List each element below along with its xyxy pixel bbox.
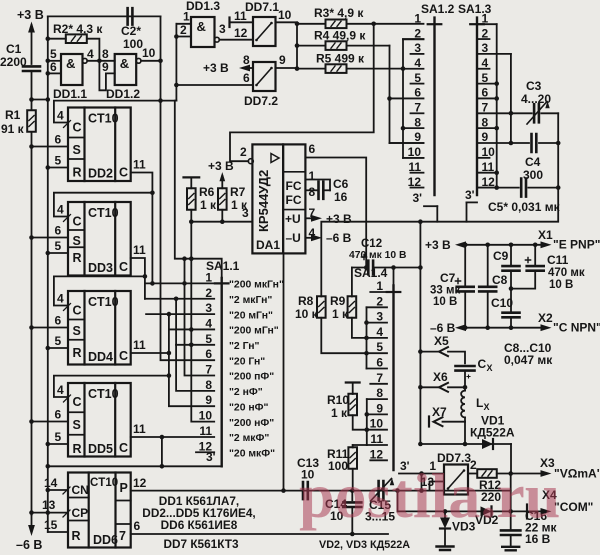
svg-text:P: P (120, 481, 128, 495)
junction out/C2 rail (158, 59, 163, 64)
junction c6 (387, 96, 392, 101)
ground C16 (502, 547, 519, 551)
junction R2 left (46, 36, 51, 41)
svg-text:C: C (73, 121, 82, 135)
svg-text:R6: R6 (199, 185, 215, 199)
svg-text:DD4: DD4 (88, 350, 113, 364)
counter DD3 (68, 202, 131, 276)
svg-text:8: 8 (102, 47, 109, 61)
svg-text:S: S (73, 143, 81, 157)
counter DD5 (68, 383, 131, 457)
wire R11 top to c11 (353, 444, 367, 446)
wire C5 left (497, 187, 519, 189)
svg-text:10 В: 10 В (549, 279, 573, 291)
wire SA1.3 group rail x=496.7 (496, 24, 498, 187)
wire DD5 out to SA1.1-11 (131, 436, 215, 438)
wire drop x=421.5 (421, 474, 423, 491)
junction R5/pin9 (295, 66, 300, 71)
svg-text:КР544УД2: КР544УД2 (256, 170, 271, 232)
wire DD3 out down (rail x=144.9) (131, 258, 145, 299)
wire DD6 P out (to C13 line) (131, 490, 511, 492)
junction C9 (509, 243, 514, 248)
svg-text:R: R (73, 251, 82, 265)
wire R10 bottom to c10 (353, 415, 367, 429)
contact SA1.2-6 (390, 97, 424, 99)
contact SA1.2-12 (411, 187, 424, 189)
junction CP line (46, 510, 51, 515)
svg-text:6: 6 (55, 314, 62, 328)
svg-text:DD1.3: DD1.3 (186, 0, 220, 13)
svg-text:10: 10 (199, 409, 213, 423)
svg-text:–U: –U (286, 231, 301, 245)
switch SA1.2 wiper bar (433, 18, 435, 195)
analog switch DD7.2 (253, 62, 276, 91)
wire DD7.3 pin13 (430, 482, 445, 491)
junction pin2 (174, 34, 179, 39)
wire pin9 tie (99, 61, 114, 91)
junction C3 line (509, 111, 514, 116)
wire C1 to R1 (31, 71, 33, 110)
junction c8 (401, 126, 406, 131)
wire hook to DD3.C (54, 193, 152, 217)
svg-text:"2 Гн": "2 Гн" (229, 341, 259, 352)
wire drop x=184.5 (c1 to c7) (185, 259, 215, 376)
svg-text:10: 10 (408, 145, 422, 159)
svg-text:S: S (73, 418, 81, 432)
svg-text:DD6: DD6 (93, 533, 118, 547)
svg-text:10: 10 (370, 417, 384, 431)
junction C14 bottom (350, 532, 355, 537)
svg-text:–6 В: –6 В (16, 538, 42, 552)
svg-text:10: 10 (278, 8, 292, 22)
wire clock line to DD2.C (54, 101, 176, 123)
svg-text:7: 7 (205, 363, 212, 377)
contact SA1.4-1 (370, 291, 387, 293)
capacitor Cx (456, 366, 475, 371)
wire drop from C13 line x=397.5 (397, 491, 399, 512)
svg-text:C: C (73, 304, 82, 318)
junction 3' drop (160, 464, 165, 469)
wire X3 rail down to C16 (510, 474, 512, 531)
svg-text:VD2, VD3 КД522А: VD2, VD3 КД522А (319, 539, 410, 551)
svg-text:"2 мкФ": "2 мкФ" (229, 433, 269, 444)
wire S DD5 (32, 421, 69, 423)
svg-text:CT10: CT10 (90, 477, 118, 489)
svg-text:X1: X1 (538, 228, 553, 242)
wire DD1.3 input rail (175, 24, 177, 101)
wire hook to DD4.C (54, 276, 145, 305)
wire C12 line left (352, 267, 368, 269)
wire right bus x=558.2 down to common line (321, 113, 558, 296)
clock edge mark DD3 (64, 215, 71, 222)
svg-text:9: 9 (102, 60, 109, 74)
analog switch DD7.1 (253, 17, 276, 46)
svg-text:&: & (120, 56, 129, 71)
junction R3 (295, 22, 300, 27)
svg-text:11: 11 (133, 243, 146, 257)
ground VD3 (437, 547, 454, 551)
wire gen rail x=160.5 to SA1.1-6 (161, 101, 215, 361)
junction C7 bottom (463, 325, 468, 330)
wire DD1.2 out (141, 60, 161, 62)
contact SA1.3-11 (479, 172, 497, 174)
wire rail x=168.9 (c3 to c9) (169, 314, 214, 406)
capacitor C2 (128, 8, 133, 24)
contact SA1.4-7 (370, 383, 387, 385)
wire R9 bottom to c4 (352, 318, 367, 338)
contact SA1.2-7 (411, 112, 424, 114)
wire R DD3 (48, 252, 68, 254)
svg-text:9: 9 (279, 53, 286, 67)
counter DD6 (68, 473, 131, 548)
contact SA1.2-9 (390, 142, 424, 144)
contact SA1.3-9 line (479, 142, 497, 144)
wire Cx to X6 node (464, 371, 466, 388)
resistor R12 (477, 469, 497, 478)
svg-text:"С NPN": "С NPN" (553, 321, 600, 335)
wire pin6 to rail (176, 84, 253, 86)
contact SA1.1-5 (176, 344, 214, 346)
contact SA1.2-8 (403, 127, 424, 129)
junction C5/group rail (494, 185, 499, 190)
svg-text:6: 6 (243, 71, 250, 85)
svg-text:11: 11 (370, 432, 383, 446)
junction DD1.1 output (97, 59, 102, 64)
contact SA1.3-4 (479, 68, 490, 70)
wire R DD6 (48, 531, 68, 533)
contact SA1.1-4 (170, 328, 214, 330)
junction drop c1/c7 (182, 256, 187, 261)
wire CP (32, 512, 69, 514)
contact SA1.2-3' (424, 205, 437, 207)
contact SA1.4-3 (367, 322, 388, 324)
logic gate DD1.1 (61, 54, 83, 85)
wire DA1 pin3 / R6 R7 node (191, 221, 252, 223)
junction c5 (364, 351, 369, 356)
wire 3' drop x=161.9 (161, 437, 163, 466)
svg-text:R10: R10 (327, 393, 349, 407)
wire wiper feed x=174.8 (175, 101, 222, 278)
wire C5 right (528, 187, 558, 189)
contact SA1.2-2 (403, 38, 424, 40)
svg-text:11: 11 (199, 424, 212, 438)
svg-text:13: 13 (42, 498, 56, 512)
svg-text:11: 11 (133, 158, 146, 172)
svg-text:+U: +U (285, 212, 301, 226)
wire DD4 out into rail x=168.9 (131, 352, 169, 354)
svg-text:R3* 4,9 к: R3* 4,9 к (314, 6, 364, 20)
svg-text:5: 5 (205, 332, 212, 346)
svg-text:6: 6 (205, 347, 212, 361)
wire R DD2 (48, 167, 68, 169)
contact SA1.3-12 line (479, 187, 497, 189)
svg-text:1: 1 (482, 11, 489, 25)
contact SA1.4-8 (367, 398, 387, 400)
junction c3 (364, 320, 369, 325)
svg-text:R7: R7 (230, 185, 246, 199)
junction DA1 pin6 (364, 265, 369, 270)
contact SA1.1-12 (196, 451, 214, 453)
svg-text:"200 мкГн": "200 мкГн" (229, 280, 284, 291)
wire to SA1.2-9 (390, 142, 424, 144)
svg-text:3': 3' (412, 191, 422, 205)
diode VD2 (481, 506, 492, 516)
counter DD4 (68, 291, 131, 365)
svg-text:DD7 К561КТ3: DD7 К561КТ3 (163, 537, 238, 551)
svg-text:8: 8 (309, 185, 316, 199)
terminal pin11 T-bar (228, 18, 230, 28)
svg-text:1: 1 (376, 279, 383, 293)
wire SA1.4 group rail upper (366, 307, 368, 368)
svg-text:DD5: DD5 (88, 442, 113, 456)
svg-text:R8: R8 (298, 294, 314, 308)
junction DD7.3 pin1 drop (419, 488, 424, 493)
counter DD2 (68, 108, 131, 182)
svg-text:C8: C8 (492, 273, 508, 287)
wire C12 line right (373, 267, 420, 269)
junction wiper line / R6 drop (189, 256, 194, 261)
contact SA1.4-6 (367, 368, 388, 370)
svg-text:10: 10 (482, 145, 496, 159)
clock edge mark DD2 (64, 121, 71, 128)
contact SA1.2-10 (403, 157, 424, 159)
svg-text:4: 4 (87, 47, 94, 61)
junction VD2 drop (395, 488, 400, 493)
diode VD3 (444, 511, 446, 517)
wire pin1 (176, 23, 191, 25)
wire SA1.3 rail x=510.9 (510, 54, 512, 143)
wire VD1 line (420, 443, 511, 445)
junction X-rail top (418, 219, 423, 224)
junction clock line (158, 98, 163, 103)
svg-text:15: 15 (44, 518, 58, 532)
svg-text:100: 100 (123, 37, 143, 51)
switch SA1.4 wiper bar (392, 286, 394, 471)
junction DA1 drop (281, 488, 286, 493)
wire pin6 (48, 72, 61, 74)
contact SA1.4-10 (367, 429, 387, 431)
contact SA1.4-4 (367, 337, 388, 339)
junction R7 (220, 219, 225, 224)
svg-text:6: 6 (309, 142, 316, 156)
svg-text:R: R (73, 442, 82, 456)
svg-text:"20 мкФ": "20 мкФ" (229, 448, 275, 459)
svg-text:C: C (478, 357, 487, 371)
wire CN to 3' rail (48, 489, 68, 491)
svg-text:КД522А: КД522А (470, 426, 515, 440)
svg-text:1 к: 1 к (200, 198, 217, 212)
svg-text:10 к: 10 к (295, 307, 319, 321)
svg-text:"200 пФ": "200 пФ" (229, 372, 274, 383)
svg-text:1 к: 1 к (331, 406, 348, 420)
svg-text:12: 12 (234, 26, 248, 40)
wire R9 top (351, 268, 353, 297)
contact SA1.2-11 (411, 172, 424, 174)
junction SA1.1-3 (167, 312, 172, 317)
svg-text:5: 5 (376, 340, 383, 354)
svg-text:10 В: 10 В (433, 296, 457, 308)
svg-text:–6 В: –6 В (430, 321, 456, 335)
wire R DD4 (48, 347, 68, 349)
junction CN DD6 (46, 488, 51, 493)
wire SA1.3 3' drop (466, 202, 468, 221)
wire pin5 (48, 60, 61, 62)
svg-text:6: 6 (55, 133, 62, 147)
svg-text:+3 В: +3 В (203, 61, 229, 75)
junction SA1.1-2 (174, 297, 179, 302)
svg-text:"200 мГн": "200 мГн" (229, 326, 279, 337)
junction c4 (364, 336, 369, 341)
svg-text:C7: C7 (440, 271, 456, 285)
svg-text:S: S (73, 234, 81, 248)
svg-text:X7: X7 (432, 405, 447, 419)
junction SA1.1-5 (189, 343, 194, 348)
svg-text:6: 6 (55, 408, 62, 422)
junction C5 (556, 185, 561, 190)
svg-text:DD1.2: DD1.2 (106, 87, 140, 101)
wire R4 rail x=389.5 (389, 46, 391, 143)
wire R4 left (297, 45, 326, 47)
contact SA1.3-10 (479, 157, 490, 159)
svg-text:"Е PNP": "Е PNP" (553, 238, 600, 252)
svg-text:+3 В: +3 В (17, 8, 44, 22)
svg-text:CP: CP (72, 506, 89, 520)
wire 3' line (48, 465, 222, 467)
svg-text:12: 12 (482, 175, 496, 189)
svg-text:C: C (119, 166, 128, 180)
wire DD2 out down (rail x=152.4) (131, 173, 153, 284)
wire R2 left (48, 38, 66, 40)
contact SA1.1-3 (146, 313, 214, 315)
contact SA1.3-8 (479, 127, 497, 129)
svg-text:1 к: 1 к (231, 198, 248, 212)
clock edge mark DD4 (64, 304, 71, 311)
svg-text:S: S (73, 324, 81, 338)
svg-text:11: 11 (408, 160, 421, 174)
wire DA1 pin2 from R3 node (230, 24, 374, 161)
node C1/R1 branch (29, 97, 34, 102)
svg-text:11: 11 (133, 422, 146, 436)
junction R DD4 (46, 346, 51, 351)
terminal X1 (541, 241, 552, 248)
wire DA1 bottom drop x=283.5 (283, 253, 285, 490)
junction hook DD5 (167, 373, 172, 378)
contact SA1.3-3' (467, 201, 478, 203)
svg-text:8: 8 (376, 386, 383, 400)
svg-text:3': 3' (206, 450, 216, 464)
svg-text:5: 5 (55, 430, 62, 444)
junction DD7.2 pin6 (174, 83, 179, 88)
svg-text:2: 2 (205, 286, 212, 300)
wiper cross SA1.2 (428, 23, 442, 25)
svg-text:+3 В: +3 В (326, 212, 352, 226)
junction 3' drop (160, 435, 165, 440)
junction X6 (418, 385, 423, 390)
svg-text:postila.ru: postila.ru (299, 460, 560, 531)
junction C11 (533, 243, 538, 248)
wire DD1.3 out to DD7.1 pin12 (219, 39, 253, 41)
svg-text:SA1.2: SA1.2 (421, 2, 455, 16)
contact SA1.4-12 (370, 459, 387, 461)
wire pin11 (230, 21, 254, 23)
contact SA1.3-1 (479, 23, 497, 25)
wire DD7.2 out (276, 67, 298, 69)
wire wiper to C12 node (393, 268, 395, 286)
junction R4 (295, 43, 300, 48)
wire hook to DD5.C (54, 376, 169, 397)
svg-text:DD6 К561ИЕ8: DD6 К561ИЕ8 (161, 518, 238, 532)
wire pin2 (176, 36, 191, 38)
svg-text:C5* 0,031 мк: C5* 0,031 мк (488, 200, 561, 214)
contact SA1.3-5 (479, 83, 497, 85)
wire branch to gate rail (32, 99, 48, 101)
op-amp DA1 body (252, 144, 283, 253)
logic gate DD1.3 (191, 17, 215, 47)
contact SA1.4-2 (367, 306, 388, 308)
switch SA1.3 wiper bar (476, 18, 478, 195)
contact SA1.3-6 (479, 97, 497, 99)
junction C8 bottom (485, 325, 490, 330)
svg-text:7: 7 (119, 529, 126, 543)
wire +3V down to C1 (31, 25, 33, 64)
svg-text:6: 6 (134, 519, 141, 533)
wire SA1.4 group rail lower (366, 399, 368, 445)
svg-text:1: 1 (309, 169, 316, 183)
svg-text:1 к: 1 к (332, 307, 349, 321)
svg-text:6: 6 (55, 224, 62, 238)
capacitor C5 (521, 179, 526, 197)
power -6V bottom-left (28, 525, 35, 536)
wire top C2 line (48, 15, 161, 17)
svg-text:R: R (72, 529, 81, 543)
svg-text:DD1.1: DD1.1 (53, 87, 87, 101)
svg-text:2: 2 (240, 145, 247, 159)
contact SA1.3-2 (479, 38, 490, 40)
junction C4 line (509, 141, 514, 146)
svg-text:X2: X2 (538, 311, 553, 325)
wire C3 right (541, 112, 558, 114)
svg-text:5: 5 (55, 154, 62, 168)
wire R-bank rail x=297 (296, 22, 298, 68)
svg-text:91 к: 91 к (1, 122, 25, 136)
capacitor C16 (501, 530, 520, 535)
svg-text:"200 нФ": "200 нФ" (229, 418, 274, 429)
wire R3 out to SA1.2-1 (347, 23, 424, 25)
logic gate DD1.2 (115, 54, 137, 85)
svg-text:8: 8 (205, 378, 212, 392)
wire left S-rail (R1 down to -6V) (31, 132, 33, 515)
junction to DA1 pin2 (371, 22, 376, 27)
svg-text:6: 6 (376, 356, 383, 370)
svg-text:C1: C1 (6, 42, 22, 56)
junction hook DD3 (150, 190, 155, 195)
wire S DD2 (32, 146, 69, 148)
wire S DD3 (32, 237, 69, 239)
svg-text:470 мк 10 В: 470 мк 10 В (349, 250, 406, 261)
junction Cx/Lx (463, 385, 468, 390)
junction R6 corner drop (189, 219, 194, 224)
inductor Lx (461, 391, 465, 418)
svg-text:5: 5 (50, 47, 57, 61)
svg-text:1: 1 (414, 11, 421, 25)
svg-text:&: & (197, 19, 206, 34)
junction X3 (508, 471, 513, 476)
svg-text:X6: X6 (433, 370, 448, 384)
analog switch DD7.3 (444, 465, 468, 495)
svg-text:9: 9 (482, 130, 489, 144)
svg-text:SA1.4: SA1.4 (354, 266, 388, 280)
svg-text:"VΩmA": "VΩmA" (554, 467, 600, 481)
